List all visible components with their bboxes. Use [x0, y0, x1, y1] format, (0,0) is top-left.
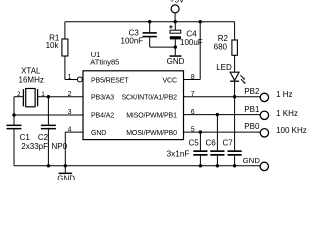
junction dot pin7 LED C7 — [233, 95, 236, 98]
svg-text:GND: GND — [243, 156, 261, 165]
svg-text:ATtiny85: ATtiny85 — [90, 57, 119, 66]
wire pin3 row — [14, 114, 83, 116]
svg-text:C7: C7 — [222, 139, 233, 148]
svg-text:C2: C2 — [38, 133, 49, 142]
wire bottom ground rail — [14, 165, 260, 167]
junction dot pin4 gnd — [64, 164, 67, 167]
junction dot pin5 C5 — [199, 130, 202, 133]
junction dot pin6 C6 — [216, 113, 219, 116]
junction dot crystal/C2 — [47, 95, 50, 98]
wire C6 down — [216, 115, 218, 151]
svg-text:MISO/PWM/PB1: MISO/PWM/PB1 — [126, 113, 177, 120]
junction dot C5 bottom — [199, 164, 202, 167]
svg-text:GND: GND — [91, 130, 106, 137]
capacitor C7 — [222, 139, 241, 166]
junction dot C2 bottom — [47, 164, 50, 167]
svg-text:PB2: PB2 — [244, 87, 260, 96]
svg-text:VCC: VCC — [162, 78, 176, 85]
wire C3 bottom to C4 bottom — [150, 46, 176, 48]
junction dot +5V rail — [174, 20, 177, 23]
crystal XTAL 16MHz — [14, 67, 48, 107]
svg-text:SCK/INT0/A1/PB2: SCK/INT0/A1/PB2 — [122, 95, 178, 102]
svg-text:PB4/A2: PB4/A2 — [91, 113, 114, 120]
wire crystal pin1 to IC pin2 — [48, 96, 83, 98]
svg-text:XTAL: XTAL — [21, 67, 41, 76]
terminal PB2 — [244, 87, 268, 101]
svg-text:16MHz: 16MHz — [19, 75, 44, 84]
svg-text:10k: 10k — [46, 41, 60, 50]
pin 1 bubble — [77, 77, 82, 82]
svg-text:C1: C1 — [20, 133, 31, 142]
svg-text:+5V: +5V — [170, 0, 185, 4]
svg-text:MOSI/PWM/PB0: MOSI/PWM/PB0 — [126, 130, 177, 137]
terminal PB0 — [244, 122, 268, 137]
svg-text:8: 8 — [191, 74, 195, 81]
svg-text:100 KHz: 100 KHz — [276, 126, 307, 135]
junction dot C6 bottom — [216, 164, 219, 167]
junction dot C1 top — [12, 113, 15, 116]
svg-text:1: 1 — [68, 74, 72, 81]
wire +5V top rail — [65, 21, 235, 23]
wire VCC pin8 — [184, 22, 201, 80]
capacitor C5 — [188, 139, 207, 166]
svg-text:1 Hz: 1 Hz — [276, 90, 292, 99]
svg-text:PB5/RESET: PB5/RESET — [91, 78, 129, 85]
terminal PB1 — [244, 105, 268, 119]
svg-text:PB0: PB0 — [244, 122, 260, 131]
wire pin5 PB0 — [184, 131, 261, 133]
LED D1 — [216, 63, 245, 84]
capacitor C1 — [7, 115, 31, 166]
wire pin1 reset — [65, 79, 77, 81]
wire pin6 PB1 — [184, 114, 261, 116]
svg-text:3x1nF: 3x1nF — [167, 150, 190, 159]
resistor R2 — [214, 22, 238, 72]
wire pin7 PB2 — [184, 96, 261, 98]
svg-text:PB3/A3: PB3/A3 — [91, 95, 114, 102]
svg-text:1 KHz: 1 KHz — [276, 109, 298, 118]
svg-text:680: 680 — [214, 42, 228, 51]
wire pin4 GND — [65, 132, 83, 166]
terminal GND — [243, 156, 269, 171]
capacitor C3 — [121, 22, 157, 47]
IC U1 ATtiny85 box — [83, 50, 184, 140]
svg-text:GND: GND — [167, 57, 185, 66]
svg-text:LED: LED — [216, 63, 232, 72]
svg-text:2x33pF: 2x33pF — [21, 142, 48, 151]
svg-text:100uF: 100uF — [180, 38, 203, 47]
wire C5 down — [199, 132, 201, 150]
svg-text:C4: C4 — [186, 29, 197, 38]
resistor R1 — [46, 22, 68, 80]
capacitor C4 (electrolytic) — [169, 22, 203, 56]
svg-text:100nF: 100nF — [121, 37, 144, 46]
svg-text:PB1: PB1 — [244, 105, 260, 114]
ground under C4 — [167, 55, 185, 66]
svg-text:C5: C5 — [188, 139, 199, 148]
ground symbol bottom left — [57, 166, 75, 184]
capacitor C6 — [205, 139, 224, 166]
node +5V supply — [170, 0, 185, 22]
junction dot C4 bottom — [174, 45, 177, 48]
svg-text:C6: C6 — [205, 139, 216, 148]
wire LED cathode down to C7 — [234, 81, 236, 150]
wire crystal pin2 down — [13, 97, 15, 115]
junction dot C3 top rail — [148, 20, 151, 23]
capacitor C2 — [38, 97, 56, 166]
junction dot C7 bottom — [233, 164, 236, 167]
junction dot VCC rail — [199, 20, 202, 23]
svg-text:GND: GND — [57, 174, 75, 180]
